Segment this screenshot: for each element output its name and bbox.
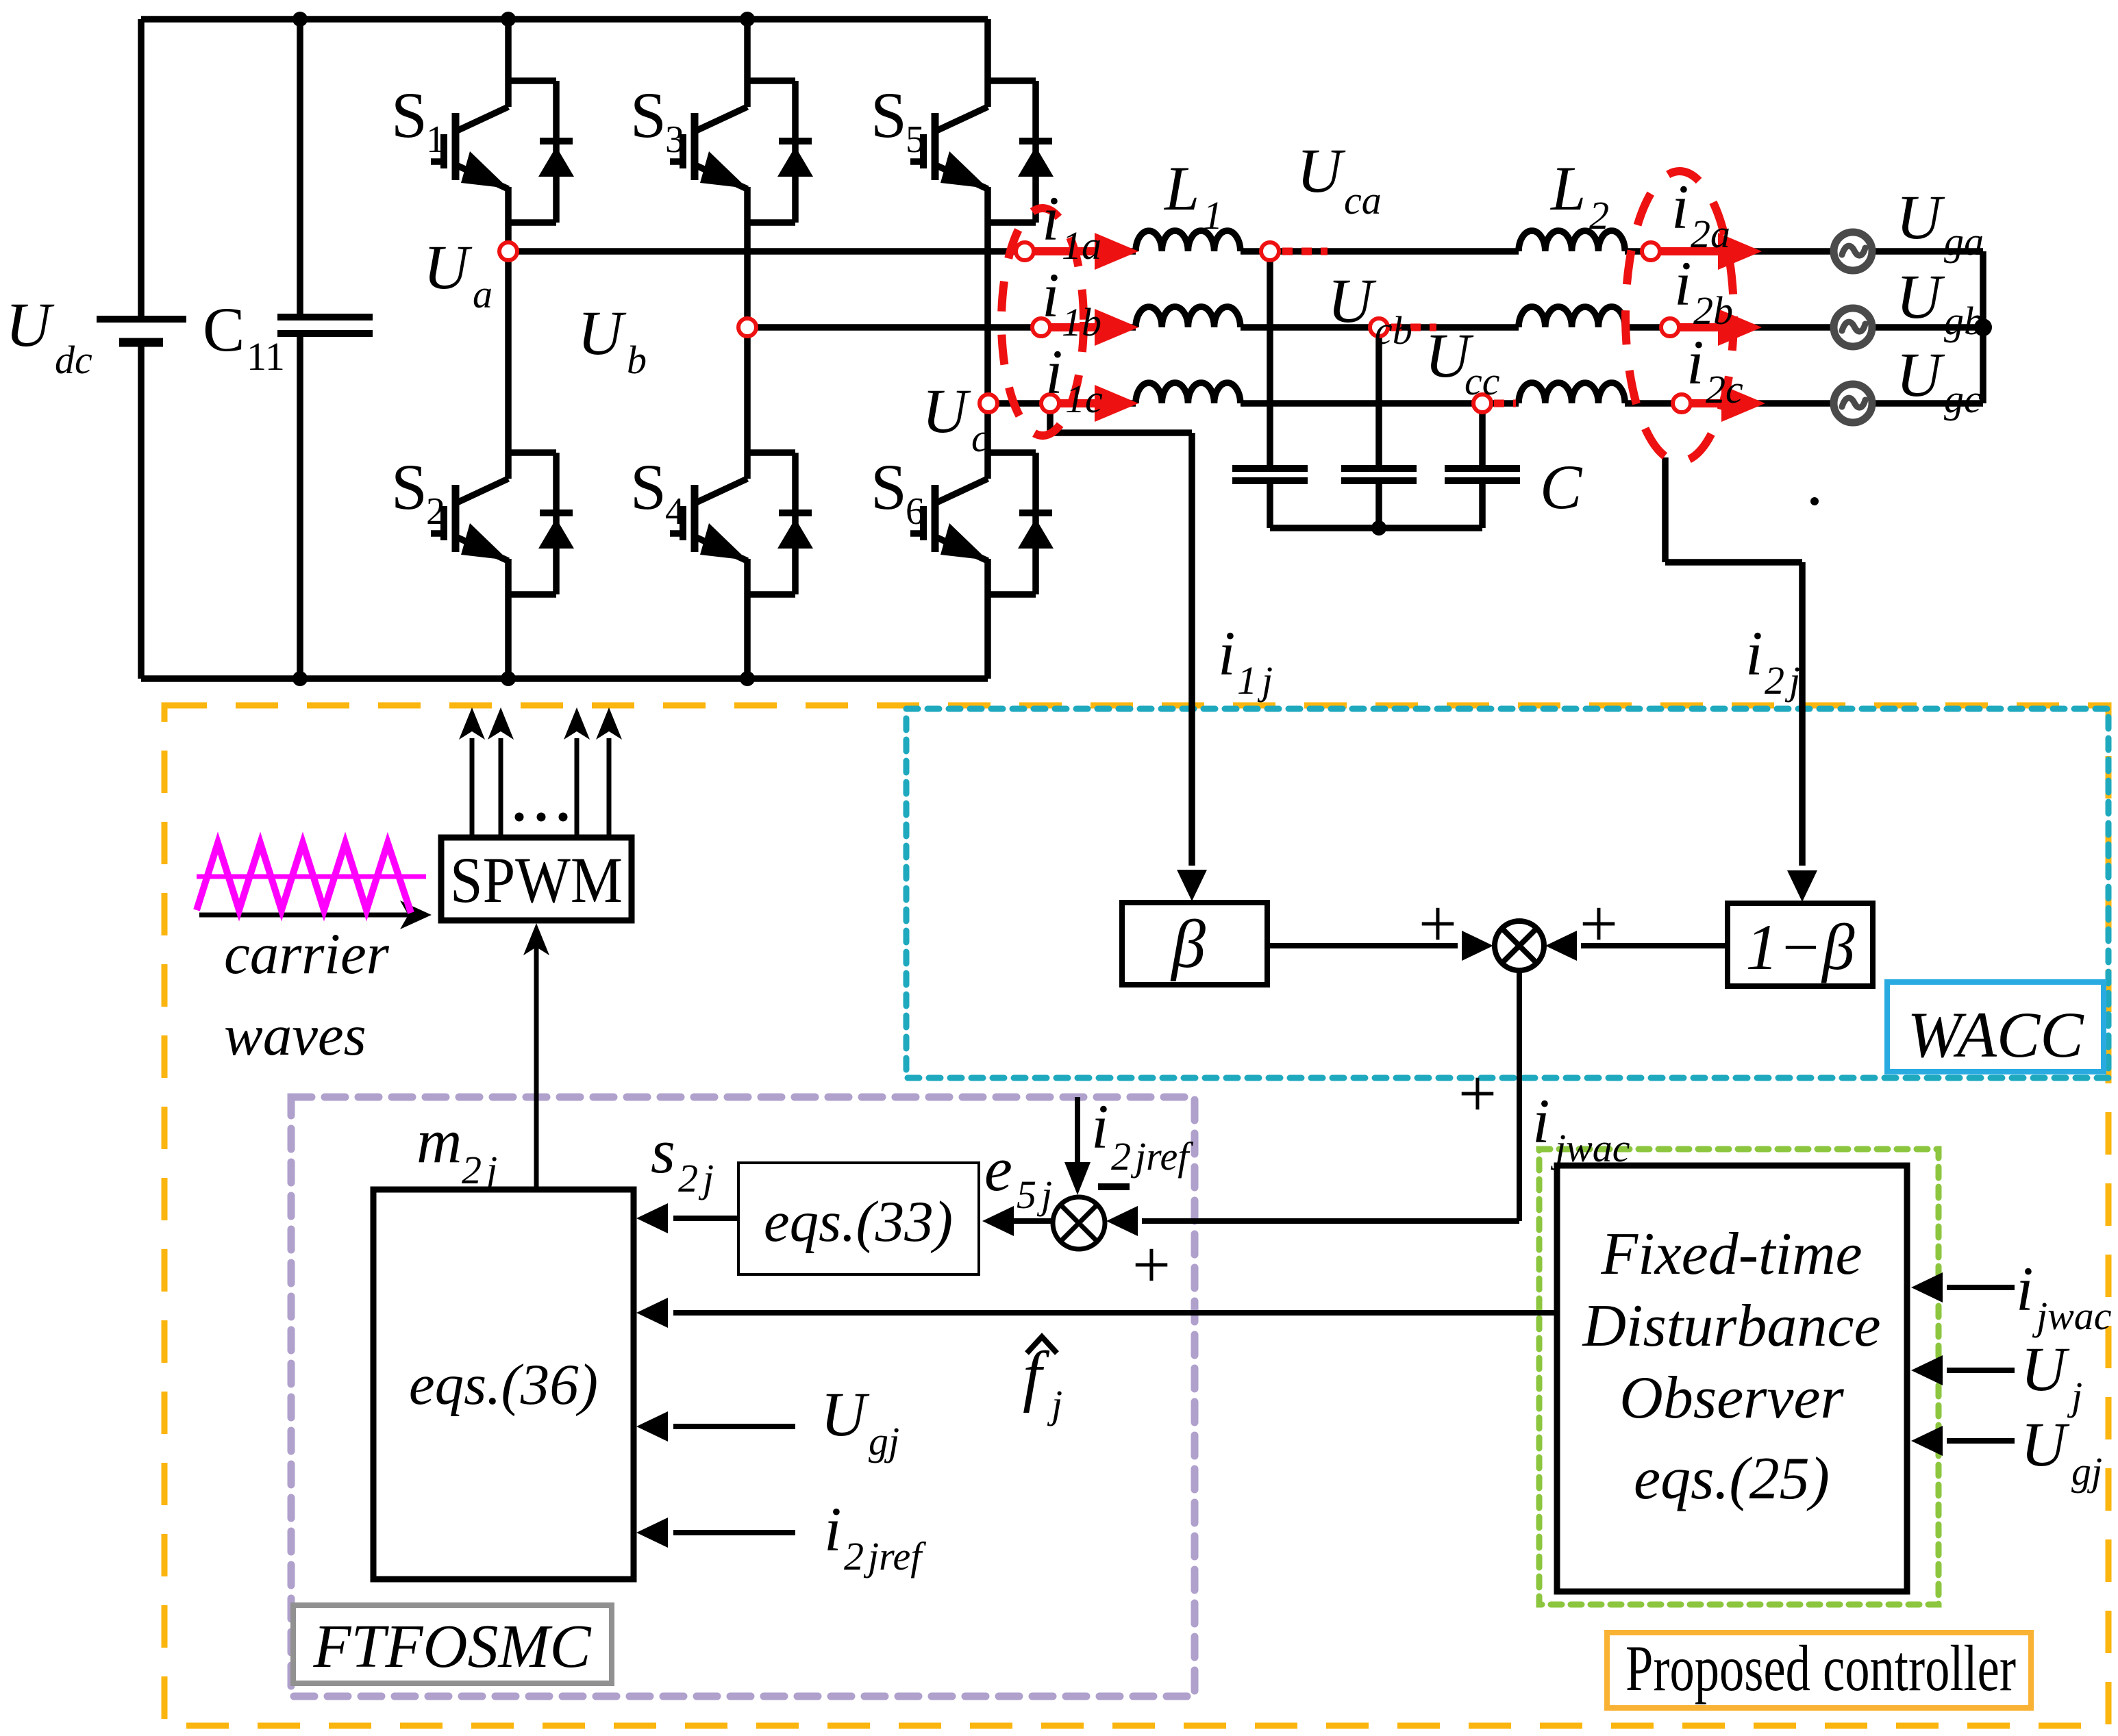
svg-text:U: U (2021, 1409, 2070, 1479)
svg-text:C: C (1540, 452, 1583, 522)
svg-text:dc: dc (55, 338, 92, 382)
svg-text:waves: waves (224, 1003, 366, 1068)
svg-text:FTFOSMC: FTFOSMC (313, 1613, 592, 1681)
svg-text:i: i (2016, 1254, 2034, 1324)
svg-text:1−β: 1−β (1746, 911, 1856, 983)
svg-text:4: 4 (665, 490, 684, 533)
svg-text:+: + (1419, 885, 1457, 961)
svg-text:gj: gj (869, 1419, 899, 1463)
svg-text:U: U (5, 290, 55, 360)
svg-text:i: i (1091, 1092, 1109, 1161)
svg-text:gb: gb (1944, 299, 1984, 343)
svg-text:1c: 1c (1065, 377, 1103, 421)
svg-text:U: U (1297, 136, 1346, 205)
svg-text:2j: 2j (678, 1156, 714, 1200)
svg-text:2: 2 (426, 490, 445, 533)
svg-text:2b: 2b (1693, 288, 1733, 333)
svg-text:e: e (984, 1134, 1012, 1204)
svg-text:C: C (203, 294, 245, 364)
svg-text:i: i (1045, 337, 1063, 407)
svg-text:i: i (1686, 327, 1704, 397)
svg-text:L: L (1163, 153, 1199, 223)
svg-text:s: s (651, 1116, 675, 1186)
svg-text:5: 5 (906, 118, 925, 161)
svg-text:eqs.(33): eqs.(33) (764, 1190, 953, 1254)
svg-text:11: 11 (247, 334, 285, 379)
svg-text:m: m (416, 1106, 462, 1176)
svg-text:Observer: Observer (1619, 1365, 1844, 1431)
svg-text:U: U (577, 298, 627, 368)
svg-text:carrier: carrier (224, 922, 390, 986)
svg-text:U: U (1896, 340, 1945, 410)
svg-text:1j: 1j (1237, 658, 1273, 703)
svg-text:+: + (1580, 885, 1618, 961)
svg-text:U: U (922, 376, 971, 446)
svg-text:U: U (1896, 262, 1945, 331)
svg-text:eqs.(36): eqs.(36) (409, 1353, 598, 1417)
svg-text:S: S (391, 79, 427, 151)
svg-text:1b: 1b (1062, 300, 1101, 344)
svg-text:Disturbance: Disturbance (1582, 1293, 1880, 1359)
svg-text:i: i (1745, 618, 1763, 688)
svg-text:a: a (473, 272, 493, 316)
svg-text:Fixed-time: Fixed-time (1600, 1221, 1862, 1287)
svg-text:S: S (630, 451, 666, 523)
svg-text:WACC: WACC (1907, 998, 2084, 1071)
svg-text:+: + (1458, 1055, 1497, 1131)
svg-text:i: i (1042, 184, 1060, 253)
svg-text:2j: 2j (1765, 658, 1800, 703)
svg-text:3: 3 (665, 118, 684, 161)
svg-text:U: U (1896, 182, 1945, 252)
svg-text:cc: cc (1465, 359, 1500, 403)
svg-text:b: b (627, 338, 647, 382)
svg-text:L: L (1549, 153, 1586, 223)
svg-text:1a: 1a (1062, 223, 1101, 268)
svg-text:c: c (971, 416, 989, 460)
svg-text:S: S (630, 79, 666, 151)
svg-text:1: 1 (426, 118, 445, 161)
svg-text:2a: 2a (1691, 212, 1730, 256)
svg-text:Proposed controller: Proposed controller (1625, 1632, 2016, 1704)
svg-text:eqs.(25): eqs.(25) (1634, 1446, 1830, 1512)
svg-text:cb: cb (1375, 308, 1412, 353)
svg-text:U: U (2021, 1334, 2070, 1404)
svg-text:1: 1 (1203, 193, 1223, 238)
svg-text:2jref: 2jref (1111, 1134, 1193, 1179)
svg-text:i: i (1674, 249, 1692, 318)
svg-text:β: β (1170, 906, 1206, 982)
svg-text:i: i (1218, 618, 1236, 688)
svg-text:+: + (1132, 1226, 1171, 1303)
svg-text:S: S (871, 79, 907, 151)
svg-text:S: S (871, 451, 907, 523)
svg-text:2c: 2c (1706, 367, 1743, 412)
svg-text:gc: gc (1944, 377, 1982, 421)
svg-text:ga: ga (1944, 219, 1984, 264)
svg-text:U: U (423, 232, 473, 302)
svg-text:5j: 5j (1017, 1172, 1052, 1217)
svg-text:U: U (1328, 266, 1377, 336)
svg-text:jwac: jwac (2032, 1294, 2112, 1338)
svg-text:S: S (391, 451, 427, 523)
svg-text:U: U (821, 1379, 870, 1449)
svg-text:gj: gj (2071, 1449, 2102, 1494)
svg-text:ca: ca (1344, 178, 1382, 223)
svg-text:2: 2 (1589, 193, 1609, 238)
svg-text:i: i (1671, 172, 1689, 242)
svg-text:i: i (824, 1494, 842, 1564)
svg-text:2j: 2j (462, 1148, 497, 1192)
svg-text:i: i (1532, 1086, 1550, 1156)
svg-text:6: 6 (906, 490, 925, 533)
svg-text:SPWM: SPWM (450, 844, 623, 916)
svg-text:i: i (1042, 260, 1060, 330)
svg-text:2jref: 2jref (844, 1534, 926, 1578)
